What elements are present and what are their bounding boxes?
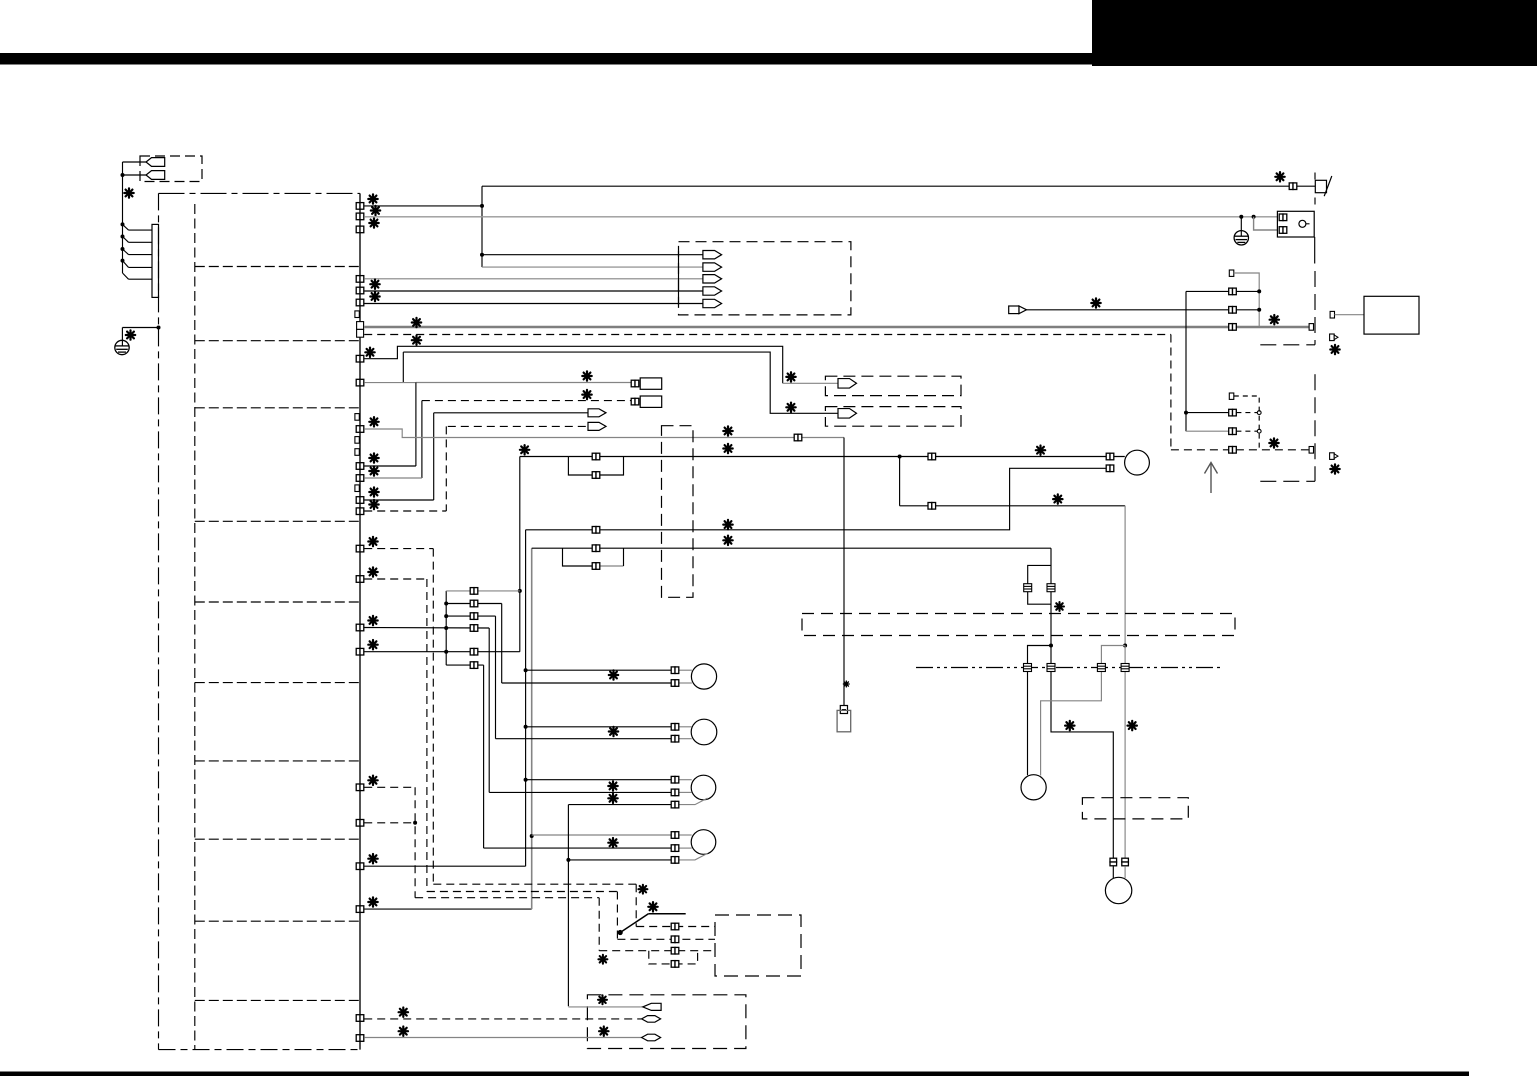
wire row2 (446, 603, 502, 605)
lamp L3 wire y=779.7 (526, 779, 672, 781)
asterisk W21 b (723, 536, 732, 545)
asterisk near ground G1 (126, 330, 135, 339)
terminal T1 left-pointing (146, 158, 165, 167)
lamp L4 wire y=859.9 (568, 859, 671, 861)
lamp L3 nub y=779.7 (678, 779, 692, 781)
wire row6 (446, 664, 483, 666)
boundary stub upper (1260, 344, 1315, 346)
dashed drop x636.2 (635, 884, 637, 926)
asterisk switch (648, 902, 657, 911)
asterisk lamp L3 b (608, 794, 617, 803)
inline pin column row1 (470, 588, 478, 595)
stub connector a (1330, 334, 1335, 341)
bus connector pin y=511.2 (356, 508, 364, 515)
wire x1186 to pin431 gray (1186, 430, 1229, 432)
asterisk gray bus end (1270, 315, 1279, 324)
long top wire to connector X1 (482, 185, 1315, 187)
asterisk W12 (365, 348, 374, 357)
boundary stub lower (1260, 480, 1315, 482)
wire x1186 to pin412 (1186, 412, 1229, 414)
spade D right (1009, 306, 1027, 314)
asterisk lamp L3 a (608, 781, 617, 790)
lamp L3 pin y=779.7 (671, 776, 679, 783)
connector block divider 3 (195, 407, 359, 409)
connector block divider 1 (195, 266, 359, 268)
lamp L4 nub y=835 (678, 834, 692, 836)
asterisk near 731 (1065, 721, 1074, 730)
fuse pin cut 4 (1121, 664, 1129, 672)
multipin connector prong 1 (121, 222, 125, 226)
connector block divider 2 (195, 340, 359, 342)
asterisk near F1 (582, 371, 591, 380)
loop LP2 bypass (563, 548, 601, 566)
wire to harness spade A2 (482, 266, 703, 268)
fuse pin cut 1 (1024, 664, 1032, 672)
dashed wire W11 (364, 334, 1171, 336)
ground symbol G2 (1234, 231, 1248, 245)
bus connector pin y=500 (356, 497, 364, 504)
asterisk W10 (412, 318, 421, 327)
pin cluster 327 (1229, 324, 1237, 331)
wire pin466 (364, 465, 416, 467)
dashed link small pin2 (1234, 396, 1259, 450)
pin cluster 309 (1229, 307, 1237, 314)
wire pin478 (364, 477, 422, 479)
small dashed box lower (1082, 798, 1188, 819)
connector block divider 5 (195, 601, 359, 603)
asterisk pin909 (368, 897, 377, 906)
lamp L1 wire y=670.2 (526, 669, 672, 671)
lamp L3 nub y=792.4 (678, 791, 692, 793)
inline pin column row5 (470, 648, 478, 655)
wire row4 pin627 (364, 627, 489, 630)
wire to harness spade A5 (364, 303, 703, 305)
lamp L1 circle (691, 664, 716, 689)
asterisk pin651 (368, 640, 377, 649)
pin switch row1 (671, 923, 679, 930)
switch throw line (648, 913, 685, 915)
spade C1 right (588, 409, 606, 417)
wire W9 gray to relay (364, 216, 1278, 218)
junction dot x415 y822 (413, 821, 417, 825)
lamp L2 wire y=738.7 (496, 738, 672, 740)
vertical x1186 (1185, 291, 1187, 431)
junction dot x899 (898, 455, 902, 459)
pin switch row4 (671, 961, 679, 968)
asterisk sensor (843, 681, 849, 687)
dashed drop x426.9 (426, 579, 428, 892)
lamp L3 wire y=792.4 (489, 791, 672, 793)
main connector bus vertical line (359, 193, 361, 1049)
dashed wire W15 to F2 (422, 400, 634, 402)
asterisk wire A4 (370, 280, 379, 289)
stub connector b (1330, 453, 1335, 460)
asterisk pin627 (368, 616, 377, 625)
junction dot riser446 y=603.5 (444, 602, 448, 606)
connector block divider 7 (195, 760, 359, 762)
wire W13 upper (403, 352, 838, 413)
pin LP1 top (592, 453, 600, 460)
lug terminal 3 (642, 1034, 661, 1041)
gray wire pin1038 (364, 1037, 641, 1039)
asterisk stub a (1330, 345, 1339, 354)
junction dot relay branch (1252, 215, 1256, 219)
asterisk near F2 (582, 390, 591, 399)
connector block divider 8 (195, 838, 359, 840)
wire W12 gray tail to spade B1 (783, 382, 839, 384)
wire W14 gray to F1 (416, 382, 634, 384)
wire from dotB down (1124, 646, 1126, 859)
relay box K1 (1277, 211, 1314, 237)
lamp L4 diag y=859.9 (678, 853, 707, 860)
wire from dotA down (1051, 646, 1113, 859)
drop x489.2 (488, 628, 490, 792)
lamp L3 wire y=804.6 (568, 804, 671, 806)
gray link small pin (1234, 273, 1259, 327)
junction dot lamp3 feed (524, 778, 528, 782)
wire W19 top (520, 456, 569, 458)
small pin lower cluster (1229, 393, 1234, 399)
asterisk W20 (1053, 494, 1062, 503)
wire from dotA to circle LC (1028, 646, 1052, 776)
black header rule (0, 53, 1092, 65)
asterisk pin500 (369, 487, 378, 496)
fuse pin cut 3 (1097, 664, 1105, 672)
multipin connector prong 3 (121, 247, 125, 251)
pin cluster 291 (1229, 288, 1237, 295)
bus half pin y=416.9 (355, 414, 359, 421)
junction at T2 wire (121, 173, 125, 177)
lamp L1 wire y=683 (502, 682, 672, 684)
gray wire to box R (1335, 314, 1365, 316)
ground wire bottom-left (122, 327, 158, 329)
dashed drop x599.2 (598, 898, 600, 951)
boundary dash lower (1314, 374, 1316, 481)
pin on top wire (1289, 183, 1297, 190)
harness boundary top dash-dot line (159, 192, 360, 194)
vertical to sensor (843, 438, 845, 706)
junction dot riser446 y=628 (444, 626, 448, 630)
boundary dash upper (1314, 271, 1316, 345)
lamp L1 nub y=683 (678, 682, 692, 684)
bus connector pin y=866.2 (356, 863, 364, 870)
dashed run y950 (599, 950, 715, 952)
harness spade A2 (703, 263, 722, 271)
pin LP2 bottom (592, 563, 600, 570)
junction dot x482 mid (480, 253, 484, 257)
lug terminal 2 (642, 1016, 661, 1023)
asterisk LP3 (1055, 602, 1064, 611)
half pin gray bus end (1309, 324, 1313, 331)
junction dot gray riser (530, 834, 534, 838)
gray vertical x1125 (1124, 506, 1126, 646)
asterisk y884 (638, 885, 647, 894)
node circle a (1257, 411, 1261, 415)
pin on W18 (794, 434, 802, 441)
gray wire to lug1 (568, 1006, 642, 1008)
asterisk on top wire (1275, 172, 1284, 181)
inline pin column row3 (470, 613, 478, 620)
dashed connector box top-left (140, 156, 202, 182)
wire W21 top (532, 547, 563, 549)
asterisk pin478 (369, 466, 378, 475)
wire x1186 to pin291 (1186, 290, 1259, 292)
pin bottom circle left (1110, 858, 1117, 866)
junction dot riser446 y=651.7 (444, 650, 448, 654)
sensor S1 cap (840, 706, 847, 714)
asterisk W19 (520, 445, 529, 454)
asterisk spade D wire (1091, 298, 1100, 307)
dashed wire pin548 (364, 548, 433, 550)
asterisk pin 229 (369, 218, 378, 227)
asterisk lamp L4 (608, 838, 617, 847)
inline pin column row6 (470, 662, 478, 669)
lamp L2 nub y=738.7 (678, 738, 692, 740)
junction dot at ground G2 (1239, 215, 1243, 219)
black title block top-right (1092, 0, 1537, 66)
harness spade A3 (703, 275, 722, 283)
dashed loop row4 (649, 951, 698, 964)
bus connector pin y=1038 (356, 1035, 364, 1042)
pin cluster 449 (1229, 447, 1237, 454)
pin W19 at M1 (1106, 453, 1114, 460)
vertical riser x482 (481, 186, 483, 267)
switch pivot dot (618, 930, 623, 935)
wire from dotB left (1041, 646, 1126, 776)
wire pin866 (364, 865, 525, 867)
pin on return wire (592, 527, 600, 534)
bus connector pin y=290.5 (356, 287, 364, 294)
pin bottom circle right (1122, 858, 1129, 866)
asterisk lug1 (598, 995, 607, 1004)
dashed drop x617.4 (616, 892, 618, 940)
harness spade A1 (703, 251, 722, 259)
lug terminal 1 (643, 1003, 661, 1010)
lamp L1 pin y=683 (671, 680, 679, 687)
junction dot riser gray (518, 589, 522, 593)
connector block divider 9 (195, 920, 359, 922)
bus connector pin y=466 (356, 463, 364, 470)
boundary dash above relay (1314, 198, 1316, 211)
asterisk pin1018 a (399, 1008, 408, 1017)
inner dashed vertical line (194, 204, 196, 1050)
junction dot A (1049, 644, 1053, 648)
dashed run y897 (415, 897, 599, 899)
riser x519.8 (519, 457, 521, 652)
spade B2 right (838, 409, 857, 419)
multipin connector prong 4 (121, 259, 125, 263)
connector block divider 10 (195, 999, 359, 1001)
bus connector pin y=1018 (356, 1015, 364, 1022)
dashed wire pin787 (364, 786, 415, 788)
fuse pin cut 2 (1047, 664, 1055, 672)
junction dot x1186 (1184, 411, 1188, 415)
asterisk pin866 (368, 854, 377, 863)
wire W20 (900, 505, 1126, 507)
heavy gray wire W10 (364, 326, 1308, 329)
junction dot cluster a (1257, 289, 1261, 293)
spade C2 right (588, 422, 606, 430)
asterisk wire A5 (370, 292, 379, 301)
drop x495.5 (495, 616, 497, 739)
wire pin651 to riser (364, 651, 520, 653)
lamp L2 pin y=738.7 (671, 735, 679, 742)
wire W19 to motor M1 (900, 456, 1125, 458)
dashed wire pin822 (364, 822, 415, 824)
bus connector pin y=278.9 (356, 276, 364, 283)
bus connector pin y=627.5 (356, 624, 364, 631)
circle BC (1105, 877, 1131, 903)
relay K1 pin 2 (1279, 227, 1287, 234)
vertical x415.9 (415, 383, 417, 467)
motor M1 circle (1125, 450, 1150, 475)
bus connector pin y=478 (356, 475, 364, 482)
pin LP2 top (592, 545, 600, 552)
circle LC (1021, 775, 1046, 800)
asterisk W19 b (723, 444, 732, 453)
lamp L2 wire y=726.8 (526, 726, 672, 728)
sensor S1 body (837, 710, 851, 731)
connector X1 box with slash (1315, 180, 1326, 192)
lamp L4 pin y=848.1 (671, 845, 679, 852)
multipin connector prong 2 (121, 235, 125, 239)
asterisk lamp L2 (609, 727, 618, 736)
vertical x421.9 (421, 401, 423, 478)
small pin top cluster (1229, 270, 1234, 276)
harness spade A5 (703, 299, 722, 307)
component box SW dashed (715, 915, 801, 976)
asterisk pin579 (368, 567, 377, 576)
wire to harness spade A4 (364, 290, 703, 292)
dashed vertical x1170.9 (1170, 335, 1172, 450)
tall dashed box mid (662, 426, 694, 598)
asterisk wire W9 (371, 206, 380, 215)
dashed harness box A (679, 242, 851, 315)
drop x483.6 (483, 665, 485, 848)
gray wire row1 (446, 590, 520, 592)
ground symbol G1 (115, 340, 129, 354)
bus connector pin y=651.7 (356, 648, 364, 655)
lamp L4 circle (691, 830, 716, 855)
riser x525.6 (525, 530, 527, 866)
dashed wire pin511 (364, 510, 446, 512)
junction dot W1 (480, 204, 484, 208)
loop LP3 bypass (1028, 565, 1051, 604)
lamp L3 circle (691, 775, 716, 800)
ground G2 stem (1240, 217, 1242, 237)
dashed box B1 (825, 376, 961, 395)
bus connector pin y=205.9 (356, 203, 364, 210)
bus tall pin (double) (357, 322, 364, 338)
asterisk pin787 (368, 776, 377, 785)
loop LP1 bypass (568, 457, 623, 476)
lamp L2 pin y=726.8 (671, 724, 679, 731)
asterisk pin511 (369, 500, 378, 509)
lamp L4 pin y=859.9 (671, 857, 679, 864)
wire W14 gray pin382 (364, 382, 416, 384)
dashed vertical x446.3 (445, 426, 447, 511)
dashed wire pin1018 (364, 1018, 641, 1020)
bus connector pin y=358.7 (356, 355, 364, 362)
junction dot lamp2 feed (524, 725, 528, 729)
relay K1 coil circle (1299, 220, 1306, 227)
pin switch row3 (671, 947, 679, 954)
lamp L4 pin y=835 (671, 832, 679, 839)
dashed run y926 (636, 926, 715, 928)
asterisk near 725 right (1128, 721, 1137, 730)
half pin dashed end (1309, 447, 1313, 454)
connector F2 (631, 398, 639, 405)
fuse pin LP3 left (1024, 584, 1032, 592)
inline pin column row2 (470, 600, 478, 607)
bottom dashed box (587, 995, 746, 1049)
junction dot riser446 y=616.1 (444, 614, 448, 618)
asterisk pin548 (368, 537, 377, 546)
junction dot cluster b (1257, 308, 1261, 312)
drop x501.7 (501, 604, 503, 684)
bus connector pin y=229.4 (356, 226, 364, 233)
inline pin column row4 (470, 625, 478, 632)
bus half pin y=452 (355, 449, 359, 456)
pin LP1 bottom (592, 472, 600, 479)
asterisk near spade B1 (786, 372, 795, 381)
pin W19 mid (928, 453, 936, 460)
wire row3 (446, 615, 495, 617)
solid segment on box A left edge (678, 251, 680, 305)
wire pin500 (364, 499, 434, 501)
asterisk W18 a (723, 426, 732, 435)
cut line dash-dot (916, 667, 1223, 669)
asterisk W11 (412, 336, 421, 345)
wire W19 through LP1 (568, 456, 899, 458)
dashed run y891 (427, 891, 618, 893)
pin cluster 412 (1229, 409, 1237, 416)
pin M1 return (1106, 465, 1114, 472)
dashed link pin431 (1236, 430, 1257, 432)
connector block divider 6 (195, 682, 359, 684)
bus connector pin y=429 (356, 426, 364, 433)
lamp L3 diag y=804.6 (678, 798, 707, 805)
bus connector pin y=302.5 (356, 299, 364, 306)
bus half pin y=314.2 (355, 311, 359, 318)
vertical x433.7 (433, 413, 435, 500)
relay branch wire (1254, 217, 1278, 230)
reference arrow up (1205, 463, 1218, 494)
terminal T2 left-pointing (146, 171, 165, 180)
pin W20 (928, 503, 936, 510)
asterisk lamp L1 (609, 670, 618, 679)
riser x446.2 (445, 591, 447, 665)
asterisk stub b (1330, 464, 1339, 473)
asterisk return wire (723, 520, 732, 529)
wire to harness spade A1 (482, 254, 703, 256)
connector block divider 4 (195, 520, 359, 522)
component box R (1364, 296, 1419, 334)
wire W21 corner down (1050, 548, 1052, 645)
asterisk pin466 (369, 453, 378, 462)
lamp L1 nub y=670.2 (678, 669, 692, 671)
asterisk pin429 (369, 417, 378, 426)
vertical x899 down (899, 457, 901, 506)
stub pin to box R (1330, 311, 1334, 318)
bus connector pin y=579 (356, 576, 364, 583)
junction dot B (1123, 644, 1127, 648)
bus half pin y=488.2 (355, 485, 359, 492)
lamp L4 wire y=835 (532, 834, 672, 836)
asterisk note near top-left (124, 188, 133, 197)
lamp L2 circle (691, 719, 717, 745)
wire W16 to spade C1 (434, 412, 589, 414)
